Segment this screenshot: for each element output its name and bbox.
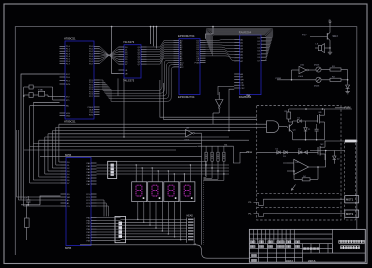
- svg-text:EPROM2764: EPROM2764: [178, 34, 195, 38]
- svg-text:P1.: P1.: [249, 213, 253, 215]
- svg-text:WR: WR: [67, 197, 71, 199]
- svg-text:D4: D4: [298, 149, 302, 151]
- svg-text:D5: D5: [67, 177, 71, 179]
- svg-text:8255: 8255: [65, 246, 72, 250]
- wire HEAD to bottom: [80, 244, 249, 259]
- inverter U9 74LS04: [213, 95, 223, 125]
- svg-text:INT0: INT0: [66, 84, 71, 86]
- node crystal gnd junction: [23, 95, 25, 97]
- resistor R2: [321, 76, 348, 81]
- svg-text:A2: A2: [240, 45, 243, 48]
- svg-text:AT89C51: AT89C51: [64, 36, 76, 40]
- svg-text:LS04: LS04: [184, 140, 190, 142]
- crystal oscillator X1 with C1 C2: [24, 85, 60, 100]
- potentiometer RW1: [309, 65, 322, 73]
- wire rail 161 drop: [117, 162, 206, 177]
- svg-text:PB1: PB1: [86, 220, 91, 222]
- svg-text:CS: CS: [67, 206, 71, 208]
- svg-text:A8: A8: [240, 73, 243, 76]
- wire address bus 373 to EPROM: [147, 41, 174, 65]
- svg-text:P3.7: P3.7: [302, 34, 307, 36]
- title block mid text: [304, 248, 319, 250]
- wire RAM ctrl vertical: [218, 92, 220, 95]
- svg-text:PB7: PB7: [86, 238, 91, 240]
- latch U2 74LS373: [119, 40, 147, 82]
- wire emitter to speaker: [315, 40, 331, 52]
- transistor Q3 9013: [327, 23, 338, 41]
- wire long rail 156: [40, 156, 202, 245]
- dashed divider 1: [257, 192, 341, 194]
- AND gate U11: [267, 121, 288, 133]
- svg-text:XT2: XT2: [66, 97, 71, 99]
- svg-text:AT89C51: AT89C51: [64, 119, 76, 123]
- svg-text:PA1: PA1: [87, 165, 92, 168]
- wire 23.7 long vertical: [24, 96, 61, 206]
- svg-text:PW: PW: [249, 152, 253, 154]
- svg-text:XTAL: XTAL: [38, 88, 44, 91]
- svg-text:GND: GND: [66, 115, 71, 117]
- dashed box motor driver section: [257, 106, 341, 221]
- zener Z2: [333, 151, 341, 164]
- wire PC to RP2 top: [97, 200, 109, 216]
- wire trunk upper pair: [160, 80, 257, 117]
- wire PWM lower row: [277, 79, 316, 81]
- svg-text:P1.: P1.: [249, 202, 253, 204]
- svg-text:HEAD: HEAD: [187, 214, 194, 217]
- svg-text:A7: A7: [240, 60, 243, 63]
- svg-text:P2.7: P2.7: [89, 96, 94, 98]
- svg-text:LE: LE: [125, 70, 128, 72]
- svg-text:2003.6: 2003.6: [286, 260, 294, 263]
- svg-text:2003.6: 2003.6: [308, 260, 316, 263]
- title project name line1: [339, 240, 365, 243]
- title block text row 1: [250, 241, 255, 243]
- 7-segment displays DS1-DS4: [132, 175, 195, 202]
- resistor network RP1: [108, 161, 117, 178]
- svg-text:WE: WE: [240, 80, 244, 82]
- MOSFET M1: [316, 109, 325, 140]
- svg-text:U10: U10: [300, 64, 305, 66]
- svg-text:PC0: PC0: [86, 194, 91, 196]
- svg-text:D3: D3: [283, 156, 287, 158]
- svg-text:A0: A0: [240, 38, 243, 41]
- svg-text:PC1: PC1: [86, 197, 91, 199]
- wire to MOT2: [249, 213, 345, 216]
- svg-text:D1: D1: [298, 117, 302, 119]
- svg-text:A5: A5: [240, 54, 243, 57]
- connector HEAD: [187, 214, 195, 242]
- title block table: [249, 229, 365, 262]
- wire EA to trunk: [30, 105, 60, 107]
- power +5V node: [328, 19, 331, 22]
- zener Z1: [304, 121, 311, 140]
- svg-text:RST: RST: [66, 74, 71, 76]
- opto drivers K1-K4: [204, 146, 226, 180]
- svg-text:U8: U8: [186, 128, 190, 130]
- svg-text:PA4: PA4: [87, 174, 92, 177]
- svg-text:Z2: Z2: [337, 159, 340, 161]
- svg-text:PWM: PWM: [276, 78, 282, 80]
- svg-text:RD: RD: [67, 194, 71, 196]
- svg-text:PB8: PB8: [86, 241, 91, 243]
- wire right drop: [347, 70, 349, 85]
- svg-text:PB4: PB4: [86, 229, 91, 231]
- EPROM U5 2764: [174, 34, 206, 99]
- wire data bus top rail EPROM-RAM: [206, 28, 273, 60]
- svg-text:PA5: PA5: [87, 177, 92, 180]
- svg-text:D6: D6: [67, 180, 71, 182]
- wire dotted vertical: [203, 181, 205, 245]
- inverter U8 74LS04: [184, 128, 202, 142]
- wire control trunk bus lines: [24, 103, 267, 184]
- svg-text:A1: A1: [240, 41, 243, 44]
- svg-text:4N25: 4N25: [314, 65, 320, 67]
- svg-text:LS04: LS04: [298, 76, 304, 78]
- dashed box right sub-section: [345, 141, 356, 220]
- wire reset node: [21, 204, 40, 206]
- resistor R3 vertical: [285, 109, 291, 122]
- svg-text:A6: A6: [240, 57, 243, 60]
- svg-text:D7: D7: [125, 64, 129, 66]
- svg-text:P3.1: P3.1: [66, 80, 71, 82]
- svg-text:PB0: PB0: [86, 217, 91, 219]
- svg-text:PC4: PC4: [86, 206, 91, 208]
- svg-text:OE: OE: [125, 73, 129, 75]
- svg-text:RXD: RXD: [89, 114, 94, 116]
- wire PB to RP2: [97, 218, 121, 241]
- wire lower drive row: [257, 151, 316, 153]
- microcontroller U1 AT89C51: [60, 36, 100, 123]
- svg-text:CS2: CS2: [240, 88, 245, 90]
- diode D4 pair: [298, 149, 308, 154]
- svg-text:OE: OE: [240, 82, 244, 84]
- wire comparator input: [292, 69, 300, 71]
- svg-text:PA6: PA6: [87, 180, 92, 183]
- svg-text:Q7: Q7: [138, 64, 142, 66]
- svg-text:A3: A3: [240, 48, 243, 51]
- svg-text:D2: D2: [276, 149, 280, 151]
- node comparator junction: [291, 70, 293, 80]
- svg-text:PC3: PC3: [86, 203, 91, 205]
- label PWM on box top: [335, 107, 350, 110]
- svg-text:Q4: Q4: [293, 129, 297, 131]
- rail top inside box: [289, 108, 352, 110]
- svg-text:PA3: PA3: [87, 171, 92, 174]
- wire OE drop to 74LS373: [112, 27, 119, 74]
- ground D5: [345, 89, 349, 94]
- ground emitter: [328, 52, 332, 54]
- wire P3 to trunk: [33, 102, 59, 104]
- diode LED D5: [346, 85, 350, 89]
- svg-text:MOT2: MOT2: [346, 212, 354, 216]
- svg-text:M2: M2: [321, 144, 325, 146]
- wire segment lines staircase: [121, 202, 187, 241]
- svg-text:D7: D7: [67, 183, 71, 185]
- svg-text:LM: LM: [296, 162, 299, 164]
- svg-text:C3: C3: [24, 198, 28, 200]
- svg-text:D2: D2: [67, 168, 71, 170]
- capacitor C3 reset: [24, 196, 31, 205]
- wire 373 OE drop to trunk: [118, 78, 125, 137]
- svg-text:PA0: PA0: [87, 162, 92, 165]
- svg-text:4N25: 4N25: [314, 86, 320, 88]
- svg-text:A1: A1: [67, 202, 70, 205]
- svg-text:D0: D0: [67, 162, 71, 164]
- wire display select taps: [136, 164, 192, 182]
- svg-text:P0.7: P0.7: [89, 63, 94, 65]
- resistor R9 reset: [25, 205, 30, 240]
- svg-text:EA: EA: [66, 105, 69, 108]
- svg-text:A12: A12: [180, 66, 185, 69]
- resistor R1: [321, 66, 348, 71]
- svg-text:74LS373: 74LS373: [123, 78, 135, 82]
- wire bottom link: [293, 139, 325, 141]
- wire U8 output down: [202, 130, 230, 156]
- wire jog A-lines near 373: [150, 27, 152, 44]
- svg-text:P1.7: P1.7: [66, 63, 71, 65]
- diode D2: [276, 149, 281, 154]
- svg-text:PC2: PC2: [86, 200, 91, 202]
- svg-text:74LS373: 74LS373: [123, 40, 135, 44]
- wire far-left bus drops: [17, 130, 61, 200]
- svg-text:MOT1: MOT1: [346, 198, 354, 202]
- svg-text:CS1: CS1: [240, 85, 245, 87]
- wire CS drop: [40, 196, 61, 205]
- title block text row 2: [250, 245, 255, 247]
- RAM U6 6264: [234, 30, 266, 99]
- diode D3: [283, 151, 287, 158]
- wire PA to RP1 rails: [97, 165, 230, 174]
- MOSFET M2: [316, 141, 325, 160]
- inverter U10 74LS04: [298, 64, 309, 78]
- resistor network RP2: [115, 216, 126, 242]
- svg-text:M1: M1: [319, 112, 323, 114]
- wire out with label: [325, 140, 359, 143]
- svg-text:D1: D1: [67, 165, 71, 167]
- wire rail drop at EPROM VCC: [206, 27, 214, 39]
- wire RST line left: [21, 74, 60, 200]
- title project name line2: [341, 246, 360, 249]
- svg-text:PA7: PA7: [87, 183, 92, 186]
- connector M1 terminal: [345, 196, 359, 203]
- wire bus EPROM to RAM6264: [206, 40, 236, 61]
- title block sign text: [251, 254, 256, 256]
- svg-text:A0: A0: [67, 199, 70, 202]
- svg-text:Z1: Z1: [308, 129, 311, 131]
- svg-text:PB6: PB6: [86, 235, 91, 237]
- svg-text:XT1: XT1: [66, 100, 71, 102]
- svg-text:A9: A9: [240, 76, 243, 79]
- dashed divider 2: [257, 207, 341, 209]
- svg-text:9013: 9013: [333, 36, 339, 38]
- svg-text:PGM: PGM: [195, 62, 200, 64]
- resistor R4: [294, 167, 318, 181]
- capacitor C4: [315, 124, 319, 140]
- svg-text:PB3: PB3: [86, 226, 91, 228]
- svg-text:A4: A4: [240, 51, 243, 54]
- svg-text:EPROM2764: EPROM2764: [178, 95, 195, 99]
- svg-text:P3.0: P3.0: [66, 77, 71, 79]
- op-amp U12: [287, 151, 326, 175]
- svg-text:PB2: PB2: [86, 223, 91, 225]
- wire address bus P2 to EPROM A8-A12: [100, 58, 175, 101]
- connector M2 terminal: [345, 210, 359, 217]
- wire VCC top rail junction: [111, 26, 113, 28]
- wire RAM WE/OE down: [218, 86, 234, 95]
- peripheral interface U7 8255: [61, 153, 97, 250]
- arrow input symbol: [283, 163, 296, 190]
- svg-text:PA2: PA2: [87, 168, 92, 171]
- wire data bus P0 to 74LS373 (crossing fan): [100, 46, 119, 64]
- svg-text:D3: D3: [67, 171, 71, 173]
- wire row 150.5: [310, 150, 345, 152]
- potentiometer RW2: [314, 77, 321, 87]
- svg-text:PB5: PB5: [86, 232, 91, 234]
- transistor Q4: [289, 121, 297, 140]
- diode D1: [293, 117, 316, 122]
- wire to MOT1: [249, 199, 345, 205]
- border frame inner: [15, 27, 357, 255]
- loudspeaker LS1: [316, 44, 325, 53]
- wire base P3.x: [310, 36, 327, 38]
- wire opto bracket: [198, 145, 248, 163]
- svg-text:D4: D4: [67, 174, 71, 176]
